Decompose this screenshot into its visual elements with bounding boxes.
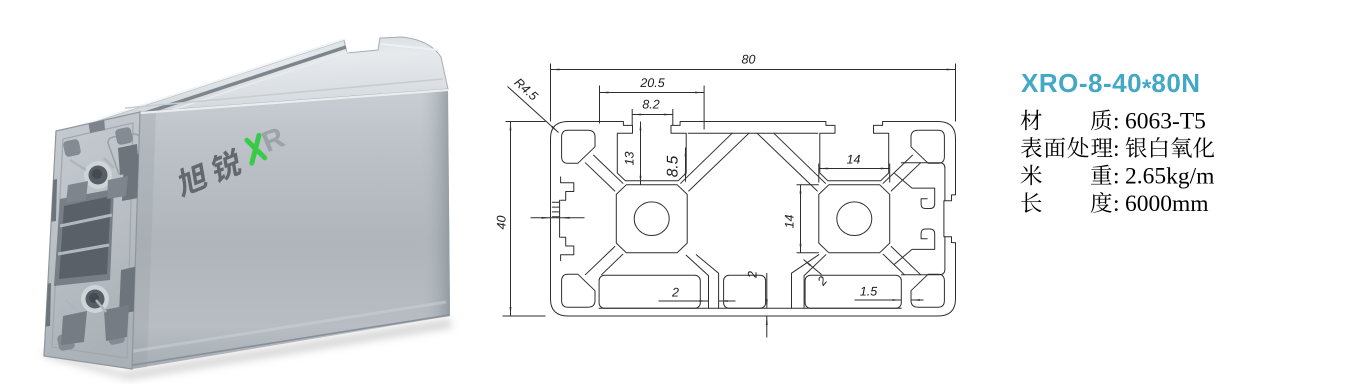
svg-text::: : <box>1113 136 1120 162</box>
svg-text::: : <box>1113 109 1120 135</box>
svg-text:6063-T5: 6063-T5 <box>1125 109 1206 135</box>
svg-text:2.65kg/m: 2.65kg/m <box>1125 164 1214 190</box>
svg-text:6000mm: 6000mm <box>1125 191 1209 217</box>
svg-text::: : <box>1113 164 1120 190</box>
svg-text::: : <box>1113 191 1120 217</box>
